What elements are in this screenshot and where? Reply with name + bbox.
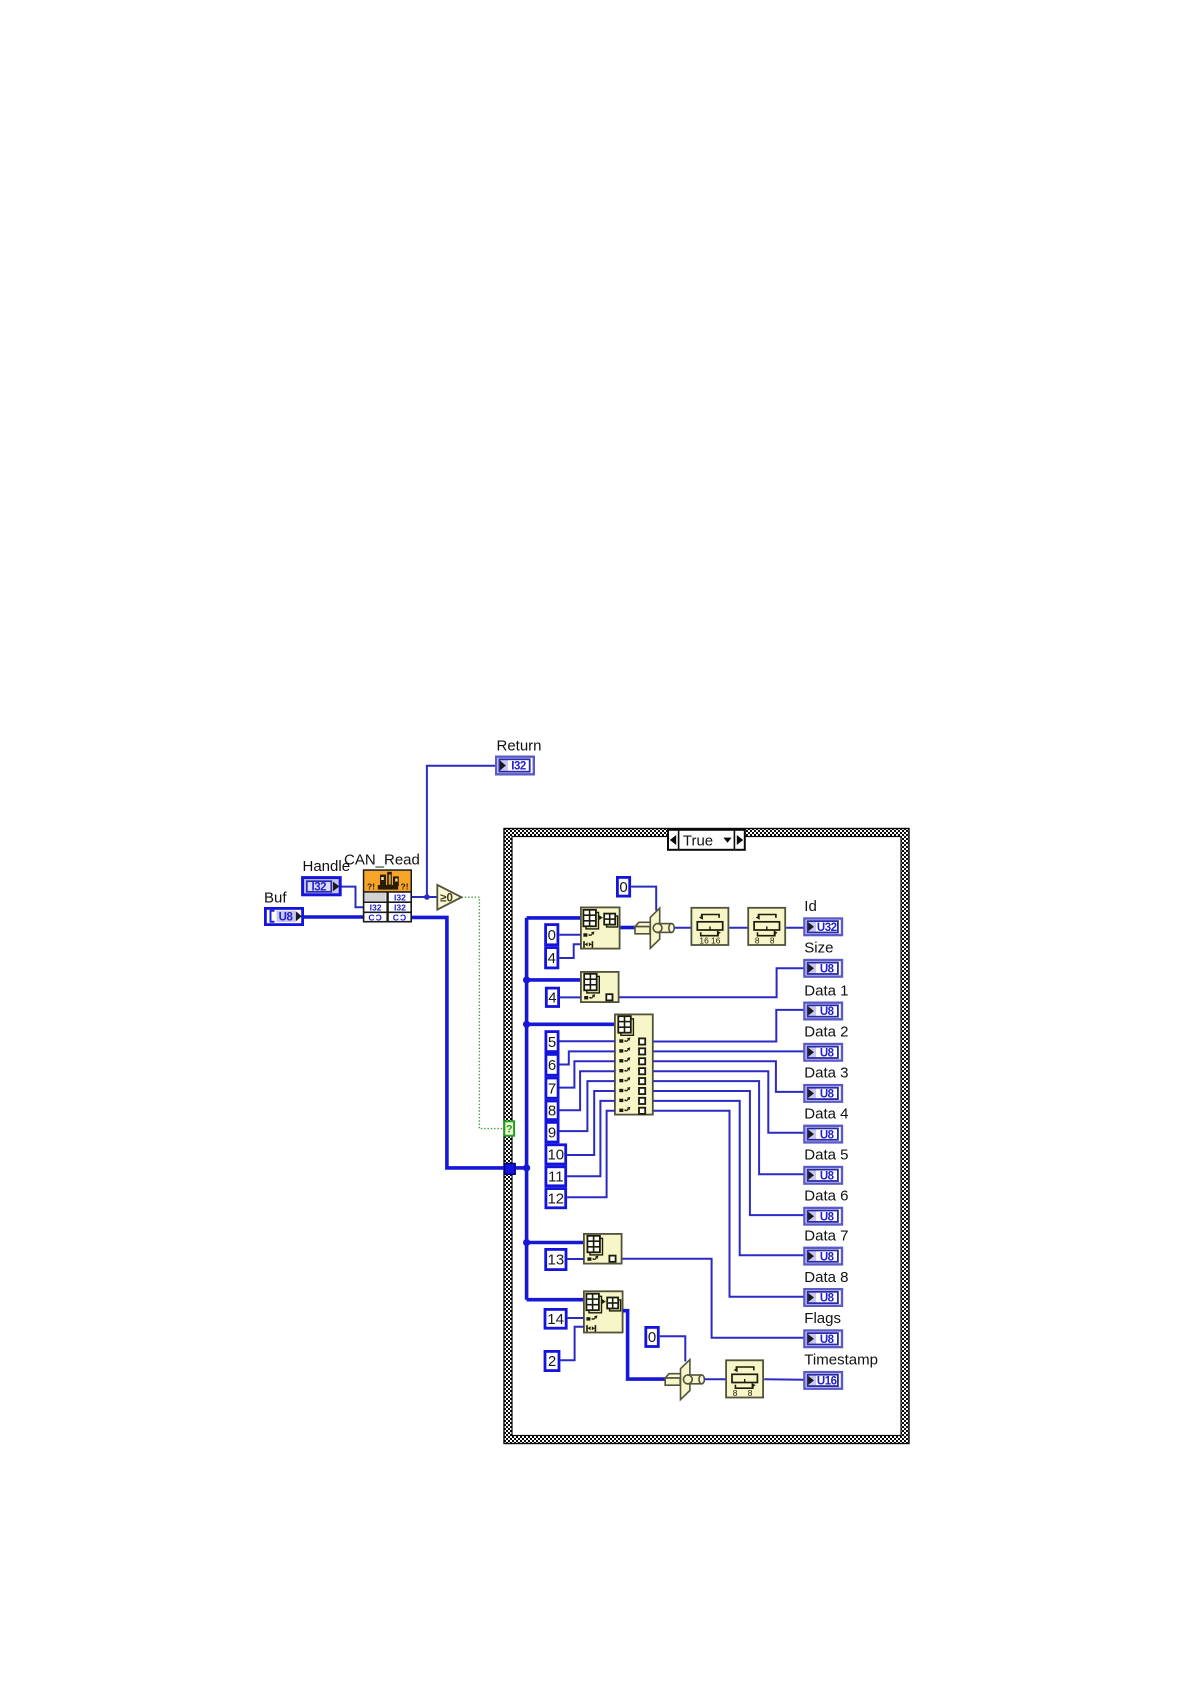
label Size — [804, 940, 833, 957]
control Handle I32 — [303, 878, 341, 895]
svg-text:I32: I32 — [312, 882, 327, 894]
svg-text:Id: Id — [804, 898, 817, 915]
svg-text:I32: I32 — [511, 761, 526, 773]
wire index array 3 to Flags — [622, 1259, 804, 1338]
wire subset2 to type cast 2 — [623, 1311, 667, 1379]
junction trunk/tunnel — [523, 1164, 530, 1171]
wire type cast 1 to swap words — [674, 927, 691, 929]
constant 13 (index array 3) — [546, 1249, 566, 1269]
control Buf U8 array — [265, 908, 302, 924]
wire const2 to subset2 length — [560, 1327, 584, 1361]
swap bytes node 1 — [748, 908, 785, 946]
label Data 7 — [804, 1227, 848, 1244]
constant 11 (index array 2) — [546, 1167, 566, 1186]
junction trunk/index2 — [523, 1021, 530, 1028]
wire swap bytes to Id — [786, 927, 804, 929]
svg-text:I32: I32 — [394, 903, 406, 913]
wire const12 to index array 2 — [567, 1111, 615, 1198]
svg-text:U8: U8 — [820, 1293, 835, 1305]
svg-text:CƆ: CƆ — [368, 913, 382, 923]
svg-text:2: 2 — [548, 1353, 556, 1370]
wire type cast 2 to swap bytes 2 — [705, 1378, 726, 1380]
indicator Data 7 U8 — [804, 1248, 842, 1265]
constant 4 (subset1 length) — [546, 948, 558, 968]
svg-text:16 16: 16 16 — [699, 935, 720, 945]
constant 12 (index array 2) — [546, 1189, 566, 1208]
svg-text:9: 9 — [548, 1124, 556, 1141]
case input tunnel (array) — [505, 1164, 516, 1175]
wire index array 2 out5 to Data 5 — [654, 1081, 805, 1174]
wire CAN_Read buffer out to case tunnel — [412, 917, 506, 1168]
svg-text:Data 3: Data 3 — [804, 1065, 848, 1082]
svg-text:8 8: 8 8 — [755, 935, 779, 945]
svg-text:Buf: Buf — [264, 890, 287, 907]
indicator Data 8 U8 — [804, 1289, 842, 1306]
label Id — [804, 898, 817, 915]
indicator Data 3 U8 — [804, 1085, 842, 1102]
svg-text:I32: I32 — [394, 892, 406, 902]
svg-text:?!: ?! — [367, 882, 375, 892]
svg-text:U8: U8 — [820, 1251, 835, 1263]
wire trunk to array subset 2 — [527, 1298, 584, 1302]
indicator Size U8 — [804, 960, 842, 977]
swap words node — [691, 908, 728, 946]
svg-text:≥0: ≥0 — [440, 893, 453, 905]
svg-text:Data 7: Data 7 — [804, 1227, 848, 1244]
wire const4 to index array 1 — [560, 996, 581, 998]
wire tunnel to trunk — [515, 1166, 526, 1170]
wire const8 to index array 2 — [560, 1071, 616, 1110]
indicator Data 6 U8 — [804, 1208, 842, 1225]
wire boolean to case selector (dotted) — [462, 897, 505, 1128]
label Data 2 — [804, 1024, 848, 1041]
wire subset1 to type cast — [621, 926, 637, 930]
svg-text:Size: Size — [804, 940, 833, 957]
constant 0 (subset1 index) — [546, 925, 558, 945]
constant 10 (index array 2) — [546, 1145, 566, 1164]
wire trunk to index array 1 — [527, 978, 581, 982]
wire const11 to index array 2 — [567, 1101, 615, 1176]
svg-text:U8: U8 — [820, 1334, 835, 1346]
svg-text:CƆ: CƆ — [393, 913, 407, 923]
wire junction on return wire — [424, 894, 430, 900]
indicator Flags U8 — [804, 1331, 842, 1348]
case selector label True — [668, 830, 745, 850]
svg-text:Data 5: Data 5 — [804, 1147, 848, 1164]
constant 6 (index array 2) — [546, 1054, 558, 1075]
array subset node 2 — [584, 1291, 623, 1332]
indicator Return I32 — [496, 757, 534, 775]
constant 2 (subset2 length) — [545, 1351, 559, 1370]
svg-text:Data 6: Data 6 — [804, 1188, 848, 1205]
wire const0 to type cast 1 — [631, 887, 656, 911]
wire index array 2 out6 to Data 6 — [654, 1091, 805, 1215]
type cast node 1 — [635, 908, 674, 948]
comparison node greater-or-equal-0 — [437, 885, 461, 910]
svg-text:Return: Return — [497, 738, 542, 755]
wire array trunk vertical — [525, 918, 529, 1300]
label Data 1 — [804, 982, 848, 999]
constant 8 (index array 2) — [546, 1101, 558, 1120]
svg-text:13: 13 — [548, 1252, 565, 1269]
wire trunk to array subset 1 — [527, 916, 581, 920]
array subset node 1 — [581, 907, 620, 948]
svg-text:U8: U8 — [820, 964, 835, 976]
wire const4 to subset1 length — [559, 944, 581, 958]
constant 9 (index array 2) — [546, 1122, 558, 1142]
wire const14 to subset2 index — [568, 1317, 584, 1319]
svg-text:0: 0 — [548, 927, 556, 944]
junction trunk/index1 — [523, 976, 530, 983]
wire swap words to swap bytes — [729, 927, 747, 929]
label Data 5 — [804, 1147, 848, 1164]
svg-text:5: 5 — [548, 1034, 556, 1051]
label Return — [497, 738, 542, 755]
svg-text:?!: ?! — [401, 882, 409, 892]
wire const13 to index array 3 — [567, 1258, 584, 1260]
svg-text:11: 11 — [548, 1169, 564, 1186]
label Data 4 — [804, 1105, 848, 1122]
label Timestamp — [804, 1352, 878, 1369]
call library function node CAN_Read — [364, 870, 412, 922]
label Handle — [303, 858, 351, 875]
svg-text:4: 4 — [548, 990, 556, 1007]
wire const7 to index array 2 — [560, 1061, 616, 1087]
svg-text:Timestamp: Timestamp — [804, 1352, 878, 1369]
wire Buf to CAN_Read — [303, 915, 364, 919]
wire index array 2 out8 to Data 8 — [654, 1111, 805, 1297]
wire index array 1 to Size — [620, 968, 805, 997]
svg-text:10: 10 — [547, 1147, 564, 1164]
label Data 8 — [804, 1269, 848, 1286]
svg-text:0: 0 — [619, 879, 627, 896]
label Buf — [264, 890, 287, 907]
junction trunk/index3 — [523, 1239, 530, 1246]
constant 14 (subset2 index) — [545, 1309, 566, 1328]
indicator Data 5 U8 — [804, 1167, 842, 1184]
svg-text:U8: U8 — [820, 1171, 835, 1183]
svg-text:7: 7 — [548, 1080, 556, 1097]
indicator Timestamp U16 — [804, 1372, 842, 1389]
svg-text:8 8: 8 8 — [733, 1388, 757, 1398]
wire index array 2 out7 to Data 7 — [654, 1101, 805, 1255]
constant 7 (index array 2) — [546, 1078, 558, 1098]
svg-text:U32: U32 — [817, 922, 837, 934]
wire trunk to index array 3 — [527, 1241, 584, 1245]
wire const6 to index array 2 — [560, 1051, 616, 1064]
indicator Data 4 U8 — [804, 1126, 842, 1143]
wire index array 2 out4 to Data 4 — [654, 1071, 805, 1133]
svg-text:Flags: Flags — [804, 1310, 841, 1327]
index array node 3 (Flags) — [584, 1234, 622, 1264]
index array node 2 (Data 1-8, expanded) — [615, 1014, 653, 1114]
label Flags — [804, 1310, 841, 1327]
svg-text:I32: I32 — [370, 903, 382, 913]
wire swap bytes 2 to Timestamp — [764, 1378, 804, 1380]
constant 5 (index array 2) — [546, 1032, 558, 1052]
svg-text:14: 14 — [547, 1311, 564, 1328]
wire index array 2 out2 to Data 2 — [654, 1050, 805, 1052]
svg-text:0: 0 — [648, 1329, 656, 1346]
indicator Id U32 — [804, 919, 842, 936]
svg-text:U8: U8 — [820, 1048, 835, 1060]
constant 4 (index array 1) — [546, 988, 558, 1006]
svg-text:?: ? — [506, 1124, 513, 1136]
wire Handle to CAN_Read — [341, 887, 364, 908]
case selector tunnel ? — [504, 1121, 514, 1135]
indicator Data 1 U8 — [804, 1003, 842, 1020]
wire const9 to index array 2 — [560, 1081, 616, 1131]
index array node 1 (Size) — [581, 972, 619, 1002]
wire trunk to index array 2 — [527, 1023, 615, 1027]
label Data 6 — [804, 1188, 848, 1205]
indicator Data 2 U8 — [804, 1044, 842, 1061]
svg-text:6: 6 — [548, 1057, 556, 1074]
svg-text:Handle: Handle — [303, 858, 351, 875]
svg-text:U8: U8 — [820, 1129, 835, 1141]
case structure border — [504, 829, 909, 1444]
svg-text:Data 8: Data 8 — [804, 1269, 848, 1286]
wire const5 to index array 2 — [560, 1040, 616, 1042]
type cast node 2 — [665, 1360, 704, 1400]
label CAN_Read — [344, 852, 420, 869]
svg-text:U16: U16 — [817, 1376, 837, 1388]
svg-text:U8: U8 — [820, 1006, 835, 1018]
svg-text:12: 12 — [547, 1190, 564, 1207]
constant 0 (type cast 1 type input) — [617, 877, 629, 896]
constant 0 (type cast 2 type input) — [646, 1327, 659, 1346]
label Data 3 — [804, 1065, 848, 1082]
wire CAN_Read return to comparison — [412, 896, 438, 898]
svg-text:4: 4 — [548, 950, 556, 967]
svg-text:U8: U8 — [820, 1089, 835, 1101]
svg-text:Data 1: Data 1 — [804, 982, 848, 999]
wire const0 to type cast 2 — [660, 1336, 686, 1361]
wire index array 2 out1 to Data 1 — [654, 1010, 805, 1042]
svg-text:True: True — [683, 832, 713, 849]
svg-text:Data 2: Data 2 — [804, 1024, 848, 1041]
wire const10 to index array 2 — [567, 1091, 615, 1155]
svg-text:CAN_Read: CAN_Read — [344, 852, 420, 869]
wire index array 2 out3 to Data 3 — [654, 1061, 805, 1092]
svg-text:8: 8 — [548, 1103, 556, 1120]
svg-text:U8: U8 — [279, 912, 294, 924]
wire const0 to subset1 index — [559, 934, 581, 936]
svg-text:U8: U8 — [820, 1211, 835, 1223]
svg-text:Data 4: Data 4 — [804, 1105, 848, 1122]
wire Return branch — [427, 766, 496, 897]
swap bytes node 2 — [726, 1360, 763, 1398]
